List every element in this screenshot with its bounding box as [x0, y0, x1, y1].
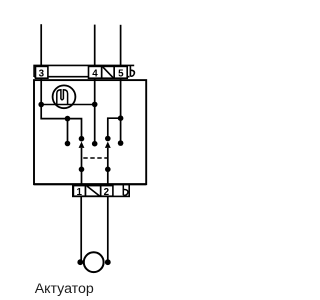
- motor right terminal dot: [105, 259, 111, 265]
- contact E: [65, 141, 71, 147]
- wire terminal 4 down to contact: [94, 79, 96, 144]
- terminal 1: [73, 186, 85, 197]
- terminal 5: [114, 66, 127, 78]
- svg-text:5: 5: [118, 68, 124, 79]
- svg-text:2: 2: [104, 187, 110, 198]
- wire terminal 1 to motor: [80, 196, 82, 262]
- unused terminal (diagonal) top: [102, 66, 115, 78]
- node J: [79, 167, 85, 173]
- terminal 3: [36, 66, 48, 78]
- terminal 4: [89, 66, 102, 78]
- lamp wire (node from terminal 3 to terminal 4 wire): [41, 104, 94, 106]
- strip end hook (top): [130, 66, 134, 77]
- lamp (indicator): [53, 85, 76, 108]
- limit switch left moving contact arrow: [79, 142, 85, 148]
- node B junction: [92, 102, 98, 108]
- motor (actuator): [84, 252, 104, 272]
- node C junction: [65, 116, 71, 122]
- wire terminal 3 down and across to switch contact: [41, 79, 81, 139]
- wire terminal 2 to motor: [107, 196, 109, 262]
- node K: [105, 167, 111, 173]
- wire branch terminal 5 to switch contact: [108, 118, 121, 138]
- strip end hook (bottom): [123, 185, 128, 195]
- node A junction: [38, 102, 44, 108]
- wire from controller to terminal 5: [120, 25, 122, 66]
- svg-text:Актуатор: Актуатор: [35, 281, 94, 297]
- contact I: [118, 140, 124, 146]
- lamp filament: [57, 90, 68, 105]
- node D junction: [118, 115, 124, 121]
- mechanical link (dashed): [83, 157, 107, 159]
- terminal 2: [101, 186, 113, 197]
- motor left terminal dot: [77, 259, 83, 265]
- contact F: [79, 136, 85, 142]
- wire branch to left contact: [67, 119, 69, 144]
- svg-text:3: 3: [39, 68, 45, 79]
- wire terminal 5 down to contact: [120, 79, 122, 144]
- wire from controller to terminal 4: [94, 25, 96, 66]
- wire from controller to terminal 3: [40, 24, 42, 66]
- wire right switch to terminal 2: [107, 148, 109, 184]
- svg-text:1: 1: [76, 187, 82, 198]
- svg-text:4: 4: [92, 68, 98, 79]
- unused terminal (diagonal) bottom: [86, 186, 101, 197]
- contact H: [105, 136, 111, 142]
- contact G: [92, 141, 98, 147]
- terminal strip (top): [34, 65, 134, 77]
- limit switch right moving contact arrow: [105, 142, 111, 148]
- housing bottom edge overdraw: [34, 183, 146, 185]
- terminal strip (bottom): [73, 185, 129, 197]
- wire left switch to terminal 1: [81, 148, 83, 184]
- actuator housing box: [34, 80, 146, 184]
